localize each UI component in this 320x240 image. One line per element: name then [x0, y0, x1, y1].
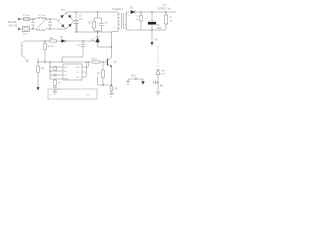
svg-text:2: 2 [114, 27, 116, 29]
wire AC bottom to bridge [46, 28, 66, 30]
svg-text:R9: R9 [160, 86, 164, 88]
svg-text:RL: RL [170, 17, 174, 19]
controller IC U1 [63, 64, 82, 80]
arrow node RTN [151, 29, 152, 30]
svg-text:R1: R1 [89, 23, 93, 25]
svg-text:R8: R8 [115, 89, 119, 91]
svg-text:5R: 5R [170, 21, 173, 23]
svg-text:R3 47k: R3 47k [48, 46, 56, 48]
node dot [32, 18, 33, 19]
output cap C5 [140, 12, 142, 30]
svg-text:VC: VC [77, 72, 80, 74]
bias winding [21, 41, 29, 63]
secondary winding [125, 14, 127, 28]
svg-text:47u: 47u [79, 19, 84, 21]
node with cap tick [157, 82, 158, 83]
drain line [111, 32, 113, 86]
svg-text:T1 EE25-Z: T1 EE25-Z [112, 9, 124, 11]
svg-text:5: 5 [129, 15, 131, 17]
svg-text:431: 431 [161, 74, 165, 76]
svg-text:RT1: RT1 [23, 34, 28, 36]
svg-text:C4: C4 [105, 23, 109, 25]
bulk capacitor C3 [75, 12, 77, 32]
svg-text:RT: RT [77, 77, 80, 79]
svg-text:330u: 330u [157, 28, 163, 30]
IC left rail [50, 62, 60, 79]
svg-text:BR1: BR1 [61, 10, 66, 12]
svg-text:VCC: VCC [64, 67, 69, 69]
DC- from bridge right vertex [74, 21, 77, 32]
svg-text:FB: FB [155, 40, 158, 42]
sense resistor R8 [111, 85, 113, 86]
svg-text:R6 4.7: R6 4.7 [91, 59, 98, 61]
bias rail [24, 40, 95, 42]
load RL [165, 12, 167, 30]
svg-text:C3: C3 [79, 16, 83, 18]
svg-text:GND: GND [64, 79, 69, 81]
svg-text:1: 1 [114, 15, 116, 17]
svg-text:C6: C6 [157, 25, 161, 27]
svg-text:VAC IN: VAC IN [9, 24, 18, 28]
svg-text:C7: C7 [77, 46, 81, 48]
fuse F1 [20, 18, 36, 20]
small cap C8 [54, 67, 56, 71]
svg-text:R10: R10 [132, 76, 137, 78]
capacitor C7 [82, 41, 84, 57]
svg-text:OUTPUT 1A: OUTPUT 1A [157, 8, 171, 11]
svg-text:FB: FB [64, 71, 67, 73]
primary lower rail [76, 31, 112, 33]
svg-text:+: + [146, 18, 148, 21]
output return rail [127, 29, 166, 31]
svg-text:Q1: Q1 [114, 62, 118, 64]
electrolytic C6 [151, 12, 153, 30]
svg-text:R2: R2 [50, 38, 54, 40]
svg-text:L1 10m: L1 10m [38, 15, 45, 17]
svg-text:t°: t° [51, 94, 53, 97]
bridge rectifier BR1 [58, 13, 74, 29]
capacitor C2 (X-cap) [49, 19, 51, 29]
dashed feedback line [157, 46, 159, 69]
svg-text:F1 2A: F1 2A [23, 14, 29, 17]
svg-text:CS: CS [64, 75, 67, 77]
output diode D5 [127, 11, 176, 13]
source rail [98, 77, 112, 85]
resistor R2 (horizontal on bias rail) [50, 40, 57, 42]
svg-text:VR1: VR1 [161, 71, 166, 73]
resistor R3 (vertical from bias rail) [44, 41, 46, 43]
bottom enclosure box [48, 89, 97, 99]
wire clamp to drain [98, 46, 112, 48]
resistor R7 [102, 62, 104, 70]
ground small [126, 82, 130, 85]
RC to ground below IC [54, 79, 56, 80]
common-mode choke L1 [37, 18, 46, 20]
clamp resistor R1 [93, 18, 95, 31]
svg-text:R5: R5 [58, 83, 62, 85]
svg-text:7: 7 [129, 27, 131, 29]
svg-text:D5: D5 [130, 8, 134, 10]
diode D2 [61, 39, 65, 42]
svg-text:R4: R4 [41, 69, 45, 71]
terminal N [18, 28, 21, 31]
clamp loop bars [94, 12, 102, 32]
svg-text:C5: C5 [136, 16, 140, 18]
down triangle [141, 81, 144, 84]
svg-text:1u: 1u [136, 19, 139, 21]
terminal L [18, 18, 21, 21]
primary winding [118, 14, 120, 28]
gate resistor R6 [92, 61, 100, 63]
IC right bus [85, 62, 88, 67]
svg-text:D2: D2 [60, 37, 64, 39]
control rail [38, 61, 91, 63]
wire AC top to bridge [46, 19, 58, 21]
thermistor RT1 [20, 28, 36, 30]
svg-text:C9: C9 [58, 89, 62, 91]
ground (secondary) [155, 92, 160, 95]
DC+ top rail [66, 12, 118, 13]
svg-text:5%: 5% [86, 95, 89, 97]
clamp capacitor C4 [101, 18, 103, 31]
resistor R4 with arrow to ground [37, 58, 39, 66]
capacitor C1 (X-cap) [32, 19, 34, 29]
clamp diode D1 [97, 32, 99, 47]
zener VR1 [156, 69, 160, 71]
svg-text:DRV: DRV [76, 67, 81, 69]
svg-text:85-264: 85-264 [8, 20, 17, 24]
transistor Q1 [106, 59, 108, 66]
svg-text:R7: R7 [97, 74, 101, 76]
